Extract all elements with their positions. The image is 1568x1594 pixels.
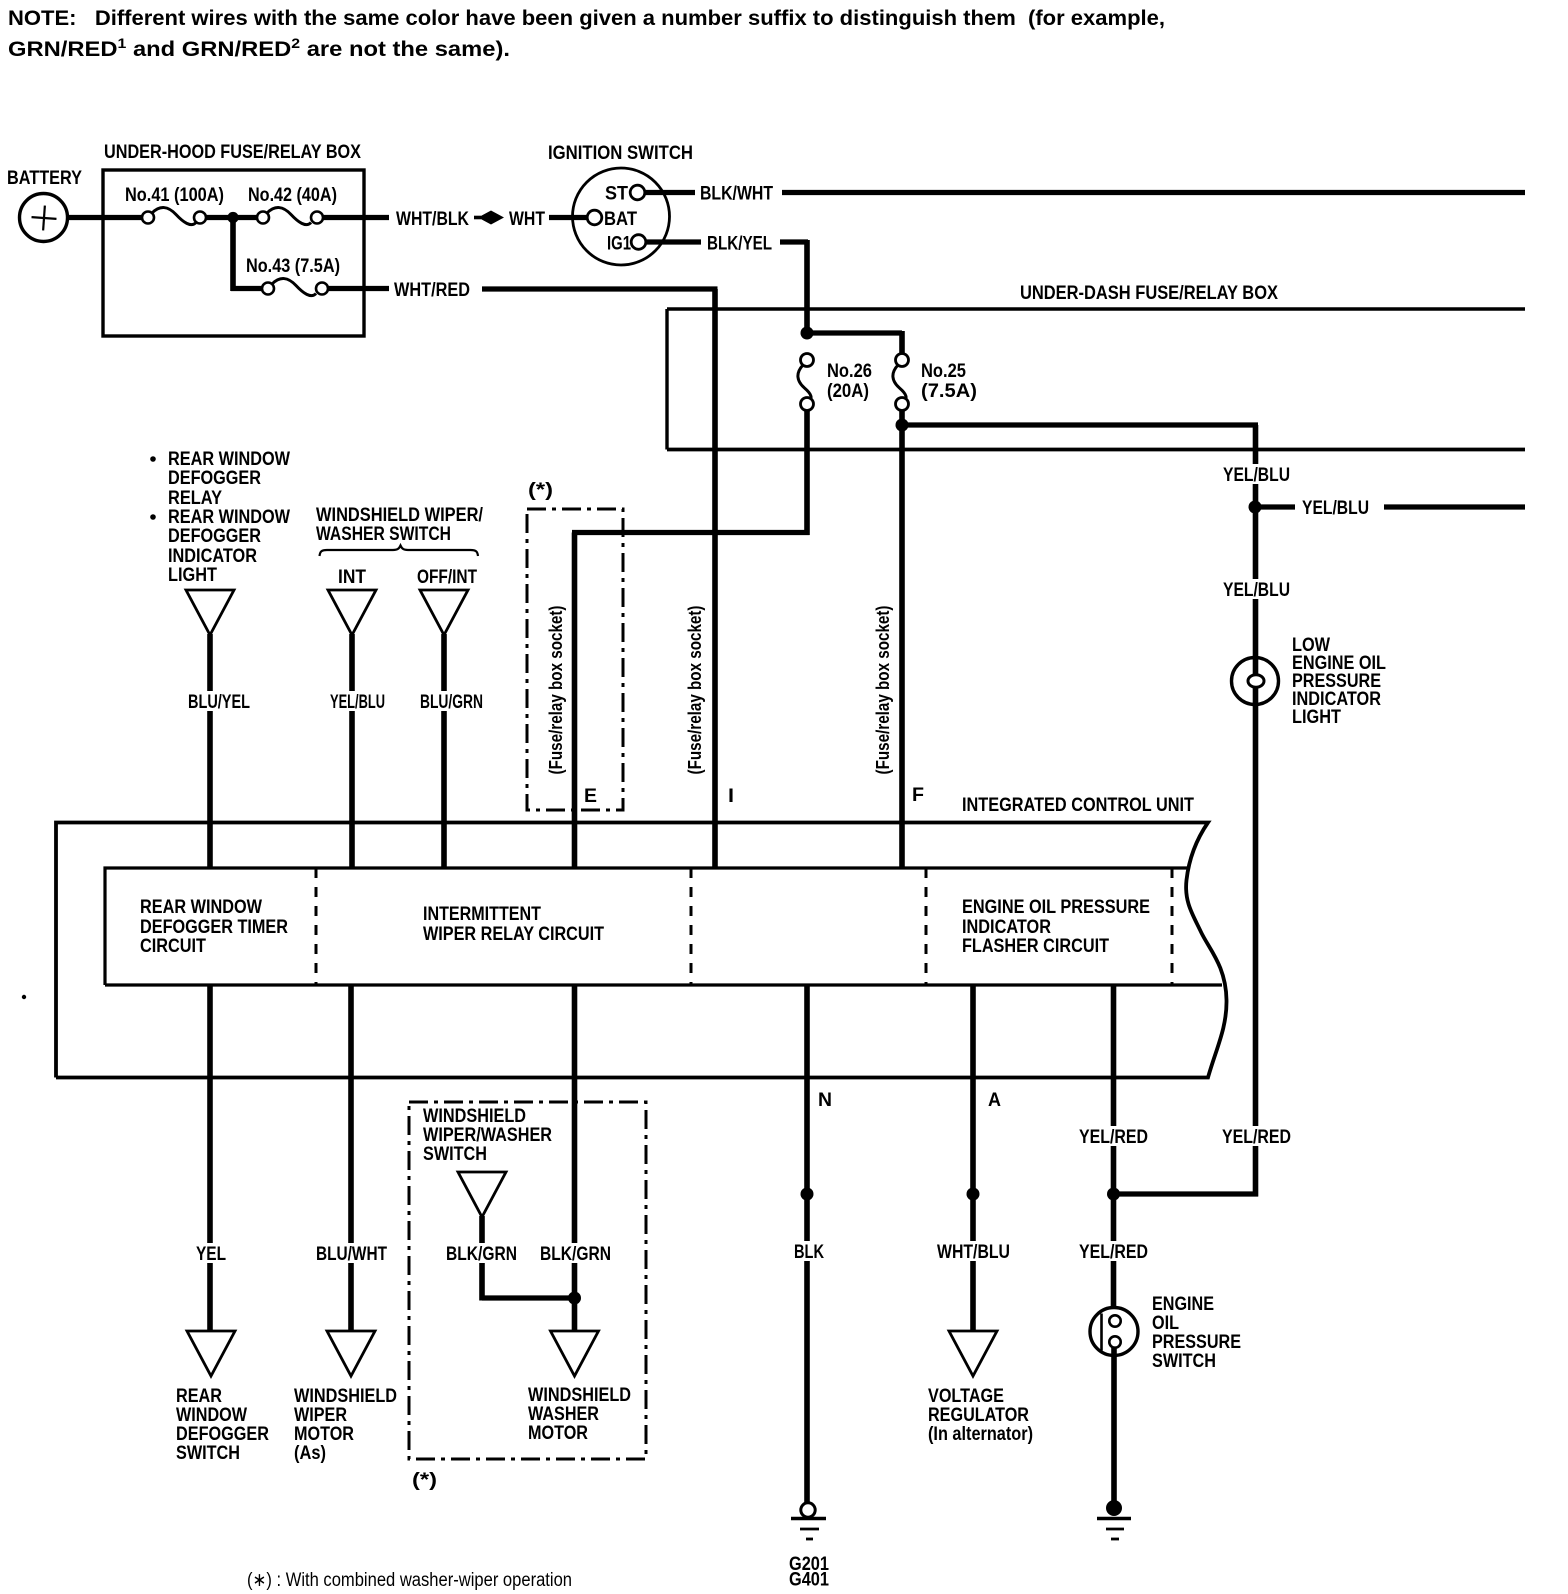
svg-text:WHT/BLU: WHT/BLU — [937, 1242, 1010, 1263]
fuse No.41 right terminal — [194, 212, 206, 224]
svg-text:WINDOW: WINDOW — [176, 1405, 247, 1426]
wire WHT/BLU down — [970, 985, 976, 1331]
wire battery to fuse No.41 — [68, 215, 143, 220]
wire junction to fuse No.25 — [807, 330, 902, 335]
svg-text:(*): (*) — [528, 480, 553, 501]
svg-text:REAR WINDOW: REAR WINDOW — [168, 449, 290, 470]
wire junction down to fuse No.25 — [899, 331, 905, 354]
ground G201 bar 3 — [806, 1538, 813, 1541]
svg-text:BLK/GRN: BLK/GRN — [540, 1244, 611, 1265]
svg-text:GRN/RED1 and GRN/RED2 are not: GRN/RED1 and GRN/RED2 are not the same). — [8, 35, 510, 61]
bullet 2 — [150, 514, 156, 520]
wire WHT to BAT terminal — [549, 215, 588, 220]
under-dash box bottom edge — [667, 448, 1525, 452]
svg-text:E: E — [584, 786, 597, 807]
svg-text:No.41 (100A): No.41 (100A) — [125, 185, 224, 206]
engine oil pressure switch body — [1090, 1308, 1138, 1356]
svg-text:IG1: IG1 — [607, 234, 631, 255]
svg-text:DEFOGGER: DEFOGGER — [168, 468, 261, 489]
svg-text:WIPER RELAY CIRCUIT: WIPER RELAY CIRCUIT — [423, 924, 604, 945]
node YEL/BLU split — [1249, 501, 1262, 514]
wire fuse No.43 to box edge — [328, 286, 389, 291]
fuse No.42 right terminal — [311, 212, 323, 224]
wire BLK/YEL down to under-dash box — [804, 240, 810, 336]
svg-text:INT: INT — [338, 567, 366, 588]
svg-text:BLU/YEL: BLU/YEL — [188, 692, 250, 713]
node BLK inline — [801, 1188, 814, 1201]
wire YEL down — [207, 985, 213, 1331]
fuse No.41 element — [152, 208, 196, 225]
svg-text:WINDSHIELD: WINDSHIELD — [528, 1385, 631, 1406]
wire fuse No.42 to box edge — [323, 215, 389, 220]
svg-text:WHT/BLK: WHT/BLK — [396, 209, 469, 230]
svg-text:WIPER: WIPER — [294, 1405, 347, 1426]
wire IG1 terminal out — [646, 239, 701, 244]
wire jog left toward terminal E — [572, 530, 810, 535]
svg-text:CIRCUIT: CIRCUIT — [140, 936, 206, 957]
ICU inner dashed separator 1 — [315, 868, 318, 985]
oil switch contact top — [1109, 1315, 1120, 1326]
wire YEL/BLU branch stub — [1257, 504, 1295, 509]
connector rear window defogger switch — [187, 1331, 235, 1376]
wire BLK/GRN jog — [482, 1295, 577, 1300]
svg-text:BLK/YEL: BLK/YEL — [707, 234, 772, 255]
ground G201 bar 1 — [791, 1517, 826, 1521]
wire WHT/RED horizontal — [482, 286, 718, 291]
ground oil switch bar 1 — [1097, 1517, 1131, 1521]
svg-text:WHT: WHT — [509, 209, 545, 230]
wire fuse No.25 down to ICU terminal F — [899, 410, 905, 868]
svg-text:WHT/RED: WHT/RED — [394, 280, 470, 301]
svg-text:(*): (*) — [412, 1470, 437, 1491]
ignition terminal ST — [630, 185, 645, 200]
wire ST terminal out — [645, 190, 695, 195]
ground oil switch bar 2 — [1106, 1528, 1124, 1531]
wire BLK down — [804, 985, 810, 1503]
svg-text:F: F — [912, 785, 924, 806]
svg-text:I: I — [728, 786, 734, 807]
svg-text:BLU/WHT: BLU/WHT — [316, 1244, 387, 1265]
wire BLU/YEL down — [207, 634, 213, 868]
svg-text:ENGINE OIL PRESSURE: ENGINE OIL PRESSURE — [962, 897, 1150, 918]
svg-text:YEL/RED: YEL/RED — [1222, 1127, 1291, 1148]
wire oil switch to ground — [1111, 1347, 1117, 1501]
svg-text:INTERMITTENT: INTERMITTENT — [423, 904, 541, 925]
wire YEL/BLU switch down — [349, 634, 355, 868]
wire YEL/BLU right run — [902, 422, 1258, 427]
svg-text:WASHER: WASHER — [528, 1404, 599, 1425]
wire branch to fuse No.43 — [231, 286, 262, 291]
wire stub at connector — [474, 216, 481, 220]
svg-text:LIGHT: LIGHT — [168, 565, 217, 586]
svg-text:OFF/INT: OFF/INT — [417, 567, 477, 588]
svg-text:BLU/GRN: BLU/GRN — [420, 692, 483, 713]
svg-text:YEL: YEL — [196, 1244, 226, 1265]
brace — [320, 546, 479, 557]
socket dash-dot box (*) — [527, 509, 623, 810]
wire YEL/BLU down to junction — [1253, 425, 1259, 1197]
svg-text:(Fuse/relay box socket): (Fuse/relay box socket) — [873, 605, 893, 774]
svg-text:WINDSHIELD: WINDSHIELD — [423, 1106, 526, 1127]
node WHT/BLU inline — [967, 1188, 980, 1201]
svg-text:No.42 (40A): No.42 (40A) — [248, 185, 337, 206]
fuse No.25 (7.5A) top terminal — [896, 354, 909, 367]
svg-text:DEFOGGER: DEFOGGER — [176, 1424, 269, 1445]
svg-text:YEL/BLU: YEL/BLU — [1302, 498, 1369, 519]
wire BLK/YEL horizontal — [780, 239, 808, 244]
svg-text:BLK: BLK — [794, 1242, 824, 1263]
svg-text:ST: ST — [605, 184, 628, 205]
fuse No.43 element — [272, 279, 316, 296]
connector wiper OFF/INT — [420, 590, 468, 635]
ignition terminal BAT — [587, 210, 602, 225]
svg-text:MOTOR: MOTOR — [294, 1424, 354, 1445]
node fuse No.26 top junction — [801, 327, 814, 340]
fuse No.43 (7.5A) left terminal — [262, 283, 274, 295]
fuse No.42 (40A) left terminal — [257, 212, 269, 224]
svg-text:YEL/BLU: YEL/BLU — [1223, 465, 1290, 486]
ground oil switch bar 3 — [1111, 1538, 1119, 1541]
wire YEL/RED down — [1111, 985, 1117, 1316]
svg-text:REAR WINDOW: REAR WINDOW — [168, 507, 290, 528]
svg-text:YEL/RED: YEL/RED — [1079, 1127, 1148, 1148]
under-hood fuse/relay box — [103, 170, 364, 336]
svg-text:YEL/BLU: YEL/BLU — [330, 692, 385, 713]
stray dot — [22, 995, 26, 999]
connector windshield wiper motor — [327, 1331, 375, 1376]
svg-text:(As): (As) — [294, 1443, 326, 1464]
lamp low engine oil pressure indicator — [1232, 658, 1279, 705]
wire BLU/GRN down — [441, 634, 447, 868]
wire fuse No.41 to node — [206, 215, 258, 220]
wire YEL/BLU branch to right edge — [1384, 504, 1525, 509]
svg-text:NOTE: Different wires with t: NOTE: Different wires with the same colo… — [8, 7, 1165, 30]
wire down to ICU terminal E — [572, 533, 578, 869]
svg-text:(7.5A): (7.5A) — [921, 381, 977, 402]
svg-text:YEL/RED: YEL/RED — [1079, 1242, 1148, 1263]
connector wiper/washer switch — [458, 1172, 506, 1217]
svg-text:A: A — [988, 1090, 1001, 1111]
svg-text:(In alternator): (In alternator) — [928, 1424, 1033, 1445]
svg-text:SWITCH: SWITCH — [423, 1144, 487, 1165]
connector wiper INT — [328, 590, 376, 635]
fuse No.26 (20A) top terminal — [801, 354, 814, 367]
bullet 1 — [150, 456, 156, 462]
fuse No.26 bottom terminal — [801, 398, 814, 411]
svg-text:(Fuse/relay box socket): (Fuse/relay box socket) — [685, 605, 705, 774]
battery B1 — [20, 194, 68, 242]
wire BLU/WHT down — [348, 985, 354, 1331]
svg-text:No.43 (7.5A): No.43 (7.5A) — [246, 256, 340, 277]
connector diamond — [478, 211, 504, 225]
wire BLK/WHT to right edge — [782, 190, 1525, 195]
svg-text:SWITCH: SWITCH — [1152, 1351, 1216, 1372]
svg-text:PRESSURE: PRESSURE — [1152, 1332, 1241, 1353]
wire BLK/GRN from switch — [479, 1216, 485, 1301]
oil switch contact bottom — [1109, 1336, 1120, 1347]
svg-text:OIL: OIL — [1152, 1313, 1179, 1334]
svg-text:REAR: REAR — [176, 1386, 222, 1407]
svg-text:MOTOR: MOTOR — [528, 1423, 588, 1444]
svg-text:BAT: BAT — [604, 209, 637, 230]
svg-text:WASHER SWITCH: WASHER SWITCH — [316, 524, 451, 545]
under-dash box left edge — [665, 309, 668, 450]
svg-text:INTEGRATED CONTROL UNIT: INTEGRATED CONTROL UNIT — [962, 795, 1194, 816]
svg-text:N: N — [818, 1090, 832, 1111]
svg-text:ENGINE: ENGINE — [1152, 1294, 1214, 1315]
ICU inner dashed right edge — [1171, 868, 1174, 985]
svg-text:SWITCH: SWITCH — [176, 1443, 240, 1464]
connector voltage regulator — [949, 1331, 997, 1376]
fuse No.42 element — [267, 208, 311, 225]
oil switch contact bar — [1100, 1314, 1103, 1351]
svg-text:WINDSHIELD WIPER/: WINDSHIELD WIPER/ — [316, 505, 484, 526]
svg-text:LIGHT: LIGHT — [1292, 707, 1341, 728]
svg-text:(∗) : With combined washer-wip: (∗) : With combined washer-wiper operati… — [247, 1570, 572, 1591]
fuse No.25 bottom terminal — [896, 398, 909, 411]
connector rear window defogger — [186, 590, 234, 635]
wire BLK/GRN trunk down — [572, 985, 578, 1331]
ground oil switch terminal — [1106, 1500, 1122, 1516]
svg-text:RELAY: RELAY — [168, 488, 222, 509]
node YEL/BLU branch — [896, 419, 909, 432]
ICU inner dashed separator 3 — [925, 868, 928, 985]
svg-text:INDICATOR: INDICATOR — [962, 917, 1051, 938]
svg-text:BLK/GRN: BLK/GRN — [446, 1244, 517, 1265]
node YEL/RED junction — [1107, 1188, 1120, 1201]
wire fuse No.26 down — [804, 410, 810, 535]
svg-text:DEFOGGER: DEFOGGER — [168, 526, 261, 547]
ground G201/G401 terminal — [801, 1503, 815, 1517]
wire node down to fuse No.43 branch — [230, 215, 236, 291]
connector windshield washer motor — [551, 1331, 599, 1376]
svg-text:VOLTAGE: VOLTAGE — [928, 1386, 1004, 1407]
svg-text:WINDSHIELD: WINDSHIELD — [294, 1386, 397, 1407]
svg-text:(20A): (20A) — [827, 381, 869, 402]
washer-wiper dash-dot box (*) — [409, 1102, 646, 1459]
node BLK/GRN join — [568, 1292, 581, 1305]
svg-text:REAR WINDOW: REAR WINDOW — [140, 897, 262, 918]
ignition terminal IG1 — [631, 235, 646, 250]
svg-text:G401: G401 — [789, 1570, 829, 1591]
svg-text:No.26: No.26 — [827, 361, 872, 382]
svg-text:DEFOGGER TIMER: DEFOGGER TIMER — [140, 917, 288, 938]
under-dash box top edge — [667, 307, 1525, 311]
node junction under-hood — [227, 212, 238, 223]
ICU inner dashed separator 2 — [690, 868, 693, 985]
fuse No.43 right terminal — [316, 283, 328, 295]
fuse No.41 (100A) left terminal — [142, 212, 154, 224]
wire WHT/RED down to ICU terminal I — [712, 289, 718, 868]
svg-text:WIPER/WASHER: WIPER/WASHER — [423, 1125, 552, 1146]
svg-text:UNDER-DASH FUSE/RELAY BOX: UNDER-DASH FUSE/RELAY BOX — [1020, 283, 1278, 304]
svg-text:IGNITION SWITCH: IGNITION SWITCH — [548, 143, 693, 164]
ground G201 bar 2 — [800, 1528, 819, 1531]
svg-text:INDICATOR: INDICATOR — [168, 546, 257, 567]
fuse No.26 element — [798, 365, 811, 401]
lamp filament — [1248, 675, 1264, 687]
svg-text:No.25: No.25 — [921, 361, 966, 382]
svg-text:(Fuse/relay box socket): (Fuse/relay box socket) — [546, 605, 566, 774]
svg-text:YEL/BLU: YEL/BLU — [1223, 580, 1290, 601]
ignition switch body — [573, 168, 670, 265]
ICU outer box — [56, 823, 1227, 1078]
fuse No.25 element — [893, 365, 906, 401]
svg-text:FLASHER CIRCUIT: FLASHER CIRCUIT — [962, 936, 1109, 957]
svg-text:REGULATOR: REGULATOR — [928, 1405, 1029, 1426]
ICU inner box — [105, 868, 1222, 985]
wire YEL/RED jog — [1114, 1191, 1259, 1196]
svg-text:BLK/WHT: BLK/WHT — [700, 184, 773, 205]
svg-text:UNDER-HOOD FUSE/RELAY BOX: UNDER-HOOD FUSE/RELAY BOX — [104, 142, 361, 163]
svg-text:BATTERY: BATTERY — [7, 168, 82, 189]
